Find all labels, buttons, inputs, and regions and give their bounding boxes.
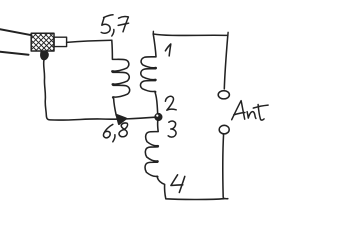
label 1 <box>165 44 170 56</box>
inductor L1 (left coil, 5,7 / 6,8) <box>112 40 130 115</box>
inductor L3 (bottom coil, 3 / 4) <box>145 121 165 185</box>
coax center pin <box>54 37 67 46</box>
junction arrowhead at 6,8 node <box>117 115 126 124</box>
label Ant <box>232 101 268 120</box>
wire: top of L2 to antenna terminal <box>153 34 227 89</box>
ground solder blob on connector <box>41 51 49 60</box>
junction dot at node 2/3 <box>155 113 162 120</box>
label 2 <box>165 96 176 110</box>
wire: pin to coil L1 <box>67 40 112 42</box>
corner tick at L2 top <box>152 31 154 34</box>
label 6,8 <box>103 123 127 142</box>
antenna terminal circle (top) <box>218 91 229 99</box>
antenna terminal circle (bottom) <box>219 125 229 134</box>
label 5,7 <box>101 15 128 36</box>
coax cable upper line <box>0 29 32 35</box>
wire: bottom terminal down, across bottom, up to L3 <box>165 134 228 200</box>
coax connector braid (hatched box) <box>31 33 54 51</box>
ground wire down from blob and across <box>44 60 156 120</box>
label 4 <box>171 175 185 193</box>
inductor L2 (right coil, 1 / 2) <box>140 34 157 115</box>
label 3 <box>168 121 176 137</box>
corner tick at top-right <box>227 32 229 36</box>
coax cable lower line <box>0 52 29 55</box>
